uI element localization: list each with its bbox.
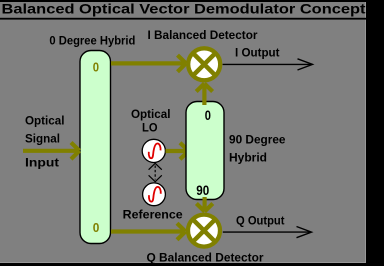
top black border line (0, 0, 384, 2)
svg-text:Q Output: Q Output (236, 214, 285, 228)
label: 90 Degree Hybrid (229, 133, 286, 165)
block: 90 degree hybrid (186, 102, 224, 200)
svg-text:0: 0 (93, 59, 99, 74)
wire: 0 degree hybrid bottom output to Q balanced detector (111, 223, 186, 240)
label: I Output (235, 46, 280, 60)
mixer: I balanced detector (188, 48, 220, 80)
svg-text:Reference: Reference (123, 208, 183, 222)
label: Reference (123, 208, 183, 222)
wire: 90 degree hybrid 0 port up to I detector (196, 84, 212, 106)
port label 0 (bottom, olive) (93, 220, 100, 235)
svg-text:Optical: Optical (25, 114, 65, 128)
svg-text:Hybrid: Hybrid (229, 151, 267, 165)
title: Balanced Optical Vector Demodulator Concept (2, 0, 366, 16)
label: Q Output (236, 214, 285, 228)
svg-text:0 Degree Hybrid: 0 Degree Hybrid (49, 34, 135, 48)
light edge highlight right (365, 2, 366, 263)
svg-text:Balanced Optical Vector Demodu: Balanced Optical Vector Demodulator Conc… (2, 0, 366, 16)
right black band (366, 0, 384, 266)
oscillator: optical LO source circle (142, 139, 165, 162)
title underline (0, 18, 366, 20)
wire: dashed double arrow between LO and reference (149, 163, 162, 181)
label: 0 Degree Hybrid (49, 34, 135, 48)
port label 0 (top, olive) (93, 59, 99, 74)
svg-text:I Balanced Detector: I Balanced Detector (148, 28, 258, 42)
port label 0 (black) (205, 108, 211, 123)
port label 90 (black) (196, 183, 209, 198)
svg-text:Signal: Signal (25, 132, 60, 146)
svg-text:0: 0 (205, 108, 211, 123)
wire: I output arrow (223, 59, 313, 70)
label: I Balanced Detector (148, 28, 258, 42)
svg-text:Input: Input (25, 156, 59, 170)
light edge highlight bottom (0, 262, 366, 263)
svg-text:90: 90 (196, 183, 209, 198)
oscillator: reference source circle (143, 183, 166, 206)
wire: 0 degree hybrid top output to I balanced detector (111, 55, 186, 72)
svg-text:LO: LO (142, 121, 158, 135)
svg-text:I Output: I Output (235, 46, 280, 60)
wire: Q output arrow (223, 227, 312, 238)
svg-text:0: 0 (93, 220, 100, 235)
svg-text:90 Degree: 90 Degree (229, 133, 286, 147)
wire: optical signal input arrow into 0 degree hybrid (23, 143, 80, 160)
label: Q Balanced Detector (147, 251, 264, 265)
wire: LO to 90 degree hybrid arrow (166, 143, 189, 160)
bottom black band (0, 263, 384, 266)
label: Optical Signal Input (25, 114, 65, 170)
svg-text:Optical: Optical (131, 107, 171, 121)
mixer: Q balanced detector (188, 215, 220, 247)
svg-text:Q Balanced Detector: Q Balanced Detector (147, 251, 264, 265)
wire: 90 degree hybrid 90 port down to Q detector (196, 197, 212, 212)
block: 0 degree hybrid (80, 51, 111, 244)
label: Optical LO (131, 107, 171, 135)
